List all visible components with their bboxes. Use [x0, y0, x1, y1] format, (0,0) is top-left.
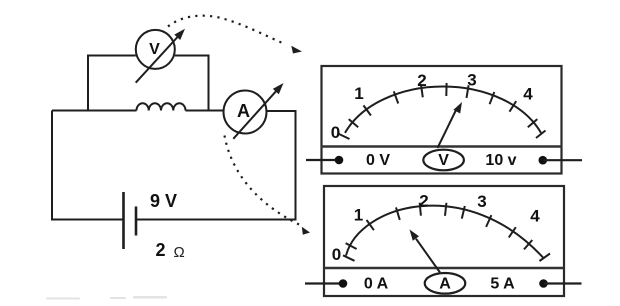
- svg-text:A: A: [237, 101, 250, 121]
- svg-text:9 V: 9 V: [150, 191, 177, 211]
- svg-text:2: 2: [156, 240, 166, 260]
- svg-text:0 A: 0 A: [364, 276, 389, 293]
- svg-text:0: 0: [331, 123, 340, 142]
- svg-text:2: 2: [419, 192, 428, 211]
- svg-text:10 v: 10 v: [485, 152, 516, 169]
- svg-text:1: 1: [354, 84, 363, 103]
- svg-text:0: 0: [332, 245, 341, 264]
- svg-text:3: 3: [477, 192, 486, 211]
- svg-text:Ω: Ω: [174, 244, 185, 261]
- svg-text:V: V: [149, 41, 160, 58]
- svg-text:1: 1: [354, 206, 363, 225]
- svg-text:4: 4: [530, 207, 540, 226]
- svg-text:4: 4: [523, 85, 533, 104]
- svg-text:5 A: 5 A: [490, 276, 515, 293]
- svg-text:2: 2: [417, 71, 426, 90]
- svg-text:3: 3: [467, 71, 476, 90]
- svg-text:V: V: [438, 152, 449, 169]
- svg-text:0 V: 0 V: [366, 152, 390, 169]
- svg-text:A: A: [439, 276, 451, 293]
